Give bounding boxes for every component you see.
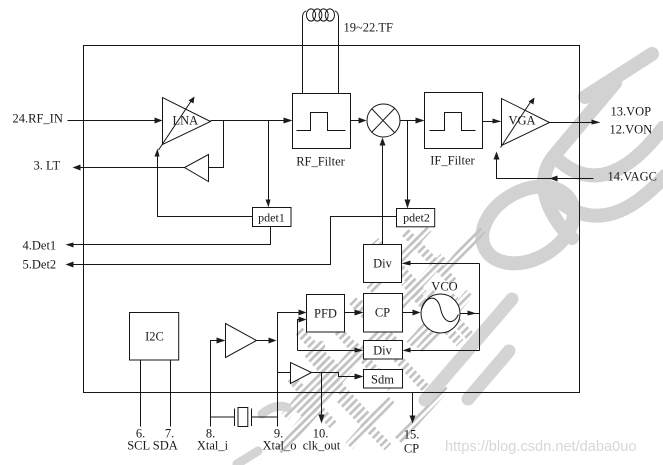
- wire IF line to pdet2 input: [405, 121, 411, 209]
- svg-text:19~22.TF: 19~22.TF: [344, 21, 394, 35]
- wire SDA pin 7: [170, 360, 172, 427]
- charge pump CP: [364, 294, 403, 333]
- svg-text:Sdm: Sdm: [371, 373, 394, 387]
- wire SCL pin 6: [140, 360, 142, 427]
- svg-text:14.VAGC: 14.VAGC: [608, 170, 657, 184]
- svg-text:I2C: I2C: [145, 330, 164, 344]
- svg-text:5.Det2: 5.Det2: [23, 258, 57, 272]
- crystal Y1: [211, 408, 278, 427]
- wire VGA output to VOP VON: [550, 120, 601, 125]
- modulator Sdm: [364, 370, 403, 389]
- filter IF_Filter: [425, 93, 483, 168]
- wire RF_IN input: [68, 118, 163, 124]
- divider Div top: [364, 245, 402, 283]
- svg-text:24.RF_IN: 24.RF_IN: [13, 112, 63, 126]
- svg-text:pdet1: pdet1: [258, 211, 285, 225]
- wire buffer to Sdm: [312, 373, 364, 380]
- phase detector PFD: [307, 295, 345, 333]
- svg-text:15.: 15.: [404, 428, 420, 442]
- wire CP to VCO: [403, 310, 421, 316]
- wire feedback to LT: [73, 165, 185, 171]
- controller I2C: [130, 313, 179, 361]
- wire LNA output to RF_Filter: [211, 118, 293, 124]
- svg-text:IF_Filter: IF_Filter: [430, 154, 475, 168]
- wire VAGC to VGA control: [494, 152, 594, 182]
- wire pdet1 to Det1 output: [66, 227, 271, 248]
- amplifier VGA: [501, 98, 550, 148]
- wire branch to feedback amp: [209, 121, 224, 168]
- svg-text:Div: Div: [373, 257, 393, 271]
- svg-text:pdet2: pdet2: [403, 211, 430, 225]
- svg-text:SCL SDA: SCL SDA: [127, 439, 178, 453]
- detector pdet2: [397, 209, 435, 227]
- wire Div to mixer LO: [380, 138, 386, 245]
- amplifier crystal oscillator: [226, 324, 277, 358]
- wire VCO net to Div2: [403, 348, 480, 353]
- wire pdet1 gain control to LNA: [155, 149, 253, 217]
- svg-text:clk_out: clk_out: [303, 439, 341, 453]
- wire PFD to CP: [345, 310, 364, 316]
- detector pdet1: [253, 208, 292, 227]
- amplifier clock buffer: [278, 363, 312, 384]
- wire LNA output to pdet1 input: [266, 121, 271, 208]
- svg-text:RF_Filter: RF_Filter: [296, 155, 345, 169]
- wire pdet2 to Det2 output: [66, 217, 397, 268]
- svg-text:CP: CP: [404, 442, 419, 456]
- mixer X1: [367, 104, 400, 137]
- wire RF_Filter to mixer: [351, 118, 367, 124]
- wire clk_out pin 10: [319, 373, 325, 424]
- amplifier LNA: [159, 97, 211, 151]
- svg-text:Div: Div: [373, 344, 393, 358]
- svg-text:12.VON: 12.VON: [610, 123, 653, 137]
- svg-text:4.Det1: 4.Det1: [23, 239, 57, 253]
- wire mixer to IF_Filter: [400, 118, 425, 124]
- svg-text:PFD: PFD: [314, 307, 337, 321]
- feedback amplifier: [185, 155, 209, 182]
- wire VCO output: [460, 264, 480, 351]
- wire IF_Filter to VGA: [483, 119, 502, 124]
- svg-text:LNA: LNA: [173, 114, 199, 128]
- oscillator VCO: [421, 280, 460, 334]
- inductor L1 19~22.TF: [303, 9, 394, 94]
- svg-text:3. LT: 3. LT: [34, 159, 61, 173]
- svg-text:Xtal_o: Xtal_o: [262, 439, 296, 453]
- chip boundary: [84, 46, 580, 393]
- wire Xtal_o pin 9 to PFD: [278, 310, 307, 427]
- wire VCO net to top Div: [402, 261, 480, 266]
- svg-text:13.VOP: 13.VOP: [611, 105, 652, 119]
- wire Xtal_i pin 8: [211, 338, 226, 427]
- wire CP pin 15: [410, 393, 416, 424]
- divider Div2: [364, 341, 403, 360]
- svg-text:Xtal_i: Xtal_i: [197, 439, 229, 453]
- filter RF_Filter: [293, 94, 351, 169]
- svg-text:VCO: VCO: [431, 280, 457, 294]
- svg-text:CP: CP: [375, 306, 390, 320]
- wire feedback net PFD and Div2: [298, 317, 364, 353]
- svg-text:https://blog.csdn.net/daba0uo: https://blog.csdn.net/daba0uo: [445, 439, 637, 455]
